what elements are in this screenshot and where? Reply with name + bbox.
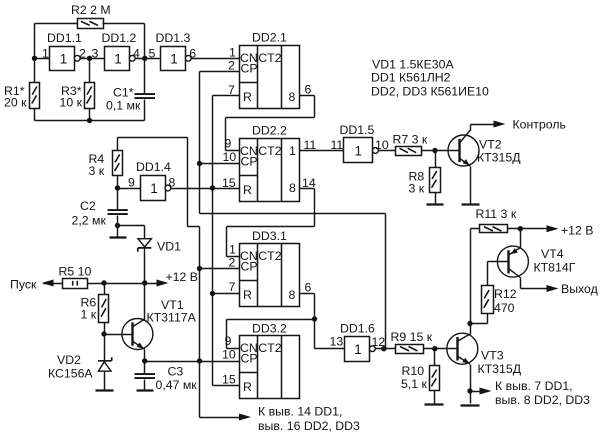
svg-text:R: R — [243, 380, 252, 394]
svg-text:КТ315Д: КТ315Д — [478, 362, 522, 376]
svg-text:8: 8 — [169, 175, 176, 189]
svg-text:1: 1 — [229, 243, 236, 257]
svg-text:7: 7 — [228, 83, 235, 97]
svg-text:1: 1 — [355, 144, 363, 159]
svg-text:9: 9 — [225, 334, 232, 348]
svg-text:DD2.2: DD2.2 — [252, 124, 287, 138]
svg-text:2: 2 — [228, 59, 235, 73]
svg-text:DD3.2: DD3.2 — [252, 322, 287, 336]
svg-text:VD2: VD2 — [57, 353, 81, 367]
svg-text:6: 6 — [189, 47, 196, 61]
svg-text:R2 2 М: R2 2 М — [71, 3, 111, 17]
svg-text:0,47 мк: 0,47 мк — [156, 378, 198, 392]
svg-text:10 к: 10 к — [60, 95, 83, 109]
svg-text:C1*: C1* — [113, 86, 134, 100]
svg-text:1: 1 — [289, 144, 296, 158]
svg-text:2,2 мк: 2,2 мк — [72, 214, 107, 228]
svg-text:1: 1 — [354, 342, 362, 357]
svg-text:КТ315Д: КТ315Д — [477, 151, 521, 165]
svg-text:3 к: 3 к — [89, 164, 105, 178]
svg-text:10: 10 — [223, 150, 237, 164]
svg-text:CT2: CT2 — [258, 51, 281, 65]
svg-text:11: 11 — [331, 138, 344, 152]
svg-text:1: 1 — [114, 51, 122, 66]
svg-text:К выв. 7 DD1,: К выв. 7 DD1, — [495, 379, 573, 393]
svg-text:CP: CP — [241, 155, 258, 169]
svg-text:1: 1 — [229, 46, 236, 60]
svg-text:CP: CP — [241, 260, 258, 274]
svg-text:CT2: CT2 — [258, 341, 281, 355]
svg-text:4: 4 — [133, 47, 140, 61]
svg-text:20 к: 20 к — [4, 95, 27, 109]
svg-text:14: 14 — [302, 176, 316, 190]
svg-text:13: 13 — [330, 334, 344, 348]
svg-text:DD2.1: DD2.1 — [252, 31, 287, 45]
svg-text:DD1.1: DD1.1 — [47, 31, 82, 45]
svg-text:1: 1 — [170, 51, 178, 66]
svg-text:1: 1 — [60, 51, 68, 66]
svg-text:R9 15 к: R9 15 к — [391, 330, 433, 344]
svg-text:С3: С3 — [168, 365, 184, 379]
svg-text:1: 1 — [150, 181, 158, 196]
svg-text:6: 6 — [305, 83, 312, 97]
svg-text:Контроль: Контроль — [513, 118, 566, 132]
svg-text:8: 8 — [289, 90, 296, 104]
svg-text:DD1.4: DD1.4 — [136, 160, 171, 174]
svg-text:5,1 к: 5,1 к — [401, 377, 428, 391]
svg-text:Пуск: Пуск — [10, 278, 37, 292]
svg-text:VD1: VD1 — [157, 240, 181, 254]
svg-text:2: 2 — [229, 256, 236, 270]
svg-text:9: 9 — [225, 137, 232, 151]
svg-text:6: 6 — [305, 281, 312, 295]
svg-text:1: 1 — [42, 47, 49, 61]
svg-text:R: R — [243, 90, 252, 104]
svg-text:+12 В: +12 В — [166, 270, 198, 284]
svg-text:VD1 1.5КЕ30А: VD1 1.5КЕ30А — [372, 58, 454, 72]
svg-text:9: 9 — [128, 175, 135, 189]
svg-text:3 к: 3 к — [409, 182, 425, 196]
svg-text:8: 8 — [289, 181, 296, 195]
svg-text:5: 5 — [149, 47, 156, 61]
svg-text:R12: R12 — [494, 287, 517, 301]
svg-text:2: 2 — [79, 47, 86, 61]
svg-text:R11 3 к: R11 3 к — [476, 207, 517, 221]
svg-text:15: 15 — [222, 176, 236, 190]
svg-text:выв. 8 DD2, DD3: выв. 8 DD2, DD3 — [495, 393, 590, 407]
svg-text:DD1.5: DD1.5 — [340, 123, 375, 137]
svg-text:VT3: VT3 — [481, 349, 504, 363]
svg-text:R: R — [243, 288, 252, 302]
svg-text:КТ814Г: КТ814Г — [534, 261, 576, 275]
svg-text:VT2: VT2 — [479, 138, 502, 152]
svg-text:КС156А: КС156А — [48, 367, 93, 381]
svg-text:DD2, DD3 К561ИЕ10: DD2, DD3 К561ИЕ10 — [371, 85, 489, 99]
svg-text:выв. 16 DD2, DD3: выв. 16 DD2, DD3 — [258, 419, 360, 433]
svg-text:Выход: Выход — [561, 282, 598, 296]
svg-text:3: 3 — [92, 47, 99, 61]
svg-text:+12 В: +12 В — [561, 224, 593, 238]
svg-text:12: 12 — [372, 335, 386, 349]
svg-text:470: 470 — [494, 301, 515, 315]
svg-text:R: R — [243, 183, 252, 197]
svg-text:7: 7 — [229, 280, 236, 294]
svg-text:CP: CP — [241, 352, 258, 366]
svg-text:10: 10 — [222, 348, 236, 362]
svg-text:10: 10 — [375, 138, 389, 152]
svg-text:0,1 мк: 0,1 мк — [106, 99, 141, 113]
svg-text:КТ3117А: КТ3117А — [147, 311, 197, 325]
svg-text:CT2: CT2 — [258, 144, 281, 158]
svg-text:CP: CP — [241, 62, 258, 76]
svg-text:8: 8 — [289, 288, 296, 302]
svg-text:R5 10: R5 10 — [59, 265, 92, 279]
svg-text:С2: С2 — [80, 199, 96, 213]
svg-text:11: 11 — [304, 138, 317, 152]
svg-text:15: 15 — [222, 373, 236, 387]
svg-text:CT2: CT2 — [258, 249, 281, 263]
svg-text:VT4: VT4 — [541, 247, 564, 261]
svg-text:DD1.3: DD1.3 — [156, 31, 191, 45]
svg-text:R10: R10 — [402, 364, 425, 378]
svg-text:1 к: 1 к — [81, 308, 97, 322]
svg-text:DD1.2: DD1.2 — [102, 31, 137, 45]
svg-text:R7 3 к: R7 3 к — [393, 133, 428, 147]
svg-text:DD3.1: DD3.1 — [252, 229, 287, 243]
svg-text:К выв. 14 DD1,: К выв. 14 DD1, — [258, 405, 342, 419]
svg-text:DD1 К561ЛН2: DD1 К561ЛН2 — [371, 71, 451, 85]
svg-text:DD1.6: DD1.6 — [340, 322, 375, 336]
